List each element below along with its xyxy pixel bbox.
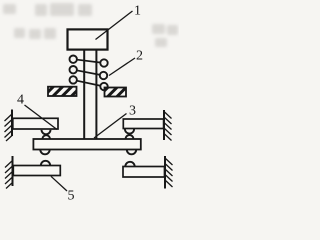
spring 2 left wire sections (70, 56, 77, 84)
upper-right wall (fixed support) (164, 110, 172, 141)
upper-left arm 4 (13, 118, 58, 129)
svg-text:5: 5 (68, 189, 75, 204)
right guide bushing (hatched) (105, 88, 127, 97)
spring 2 coil diagonals (73, 59, 104, 86)
leader line 5 (51, 176, 67, 191)
paper background (0, 0, 179, 205)
lower-right roller (two half-discs) (125, 150, 136, 167)
leader line 3 (94, 114, 127, 139)
mass block 1 (driven body) (68, 29, 108, 49)
upper-left wall (fixed support) (5, 110, 13, 142)
lower-left wall (fixed support) (5, 156, 13, 189)
lower-right wall (fixed support) (165, 156, 173, 189)
svg-text:1: 1 (134, 4, 141, 19)
lower-left arm 5 (13, 166, 60, 176)
lower-right arm (123, 167, 165, 178)
svg-text:3: 3 (129, 104, 136, 119)
leader line 1 (96, 11, 133, 40)
rod 3 (vertical stem, two lines) (84, 50, 96, 140)
svg-text:4: 4 (17, 93, 24, 108)
svg-text:2: 2 (136, 49, 143, 64)
upper-left roller (two half-discs) (42, 130, 51, 139)
left guide bushing (hatched) (48, 87, 77, 96)
leader line 2 (109, 58, 135, 76)
faint print bleed-through smudges (3, 3, 178, 47)
platform bar (follower table) (33, 139, 140, 150)
lower-left roller (two half-discs) (40, 150, 50, 166)
upper-right roller (two half-discs) (125, 129, 134, 139)
leader line 4 (25, 105, 58, 130)
spring 2 right wire sections (100, 59, 108, 90)
upper-right arm (123, 119, 163, 129)
